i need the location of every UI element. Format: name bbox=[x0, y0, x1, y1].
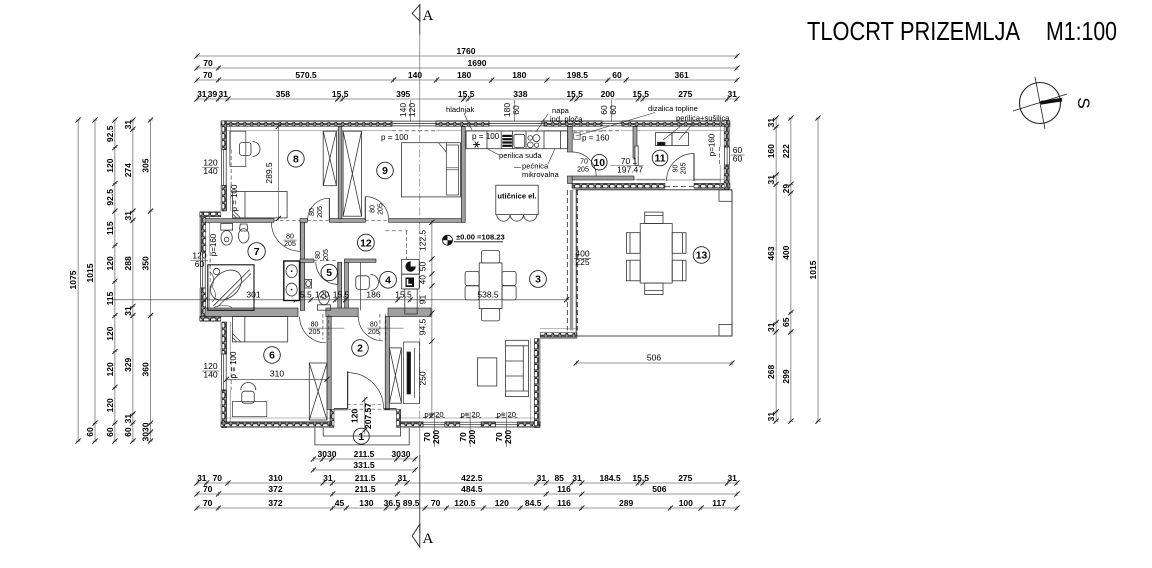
section line A-A bbox=[419, 5, 421, 534]
dim top row1 total 1760 bbox=[194, 46, 739, 59]
svg-text:310: 310 bbox=[270, 369, 284, 379]
svg-text:92.5: 92.5 bbox=[105, 189, 115, 206]
svg-text:utičnice el.: utičnice el. bbox=[497, 192, 536, 201]
svg-text:S: S bbox=[1074, 97, 1093, 108]
heat pump unit room 10 bbox=[574, 133, 580, 139]
interior wall bedrooms north east part bbox=[388, 308, 431, 317]
svg-text:3030: 3030 bbox=[392, 449, 411, 459]
svg-text:200: 200 bbox=[467, 430, 477, 444]
svg-text:275: 275 bbox=[678, 89, 692, 99]
exterior wall right segment 1 bbox=[720, 121, 730, 148]
svg-text:p=160: p=160 bbox=[708, 133, 717, 156]
exterior wall top segment 3 bbox=[544, 121, 602, 131]
room 10 lintel dash bbox=[573, 130, 602, 132]
svg-text:120: 120 bbox=[105, 326, 115, 340]
exterior wall left lower segment 1 bbox=[221, 322, 231, 354]
kitchen island bbox=[496, 185, 538, 214]
svg-text:538.5: 538.5 bbox=[477, 290, 499, 300]
svg-text:329: 329 bbox=[123, 357, 133, 371]
svg-text:70: 70 bbox=[203, 498, 213, 508]
svg-text:31: 31 bbox=[123, 120, 133, 130]
svg-text:140: 140 bbox=[408, 70, 422, 80]
window label 60/60 utility bbox=[731, 145, 745, 164]
door leaf rooms 10|11 bbox=[635, 146, 638, 166]
room 8 desk bbox=[230, 131, 246, 166]
svg-text:1015: 1015 bbox=[808, 260, 818, 279]
svg-text:31: 31 bbox=[537, 473, 547, 483]
terrace chairs bbox=[626, 212, 686, 294]
svg-text:100: 100 bbox=[679, 498, 693, 508]
tv wall unit bbox=[404, 342, 420, 404]
svg-text:299: 299 bbox=[781, 369, 791, 383]
svg-text:205: 205 bbox=[309, 329, 321, 336]
svg-text:275: 275 bbox=[678, 473, 692, 483]
svg-text:372: 372 bbox=[268, 484, 282, 494]
svg-text:94.5: 94.5 bbox=[418, 318, 428, 335]
svg-text:15.5: 15.5 bbox=[632, 473, 649, 483]
svg-text:570.5: 570.5 bbox=[295, 70, 317, 80]
dim bottom porch total 331.5 bbox=[311, 460, 418, 473]
svg-text:180: 180 bbox=[457, 70, 471, 80]
svg-text:89.5: 89.5 bbox=[403, 498, 420, 508]
svg-text:205: 205 bbox=[323, 249, 330, 261]
bathroom bump top stub bbox=[200, 211, 221, 217]
svg-text:15.5: 15.5 bbox=[632, 89, 649, 99]
svg-text:11: 11 bbox=[655, 154, 666, 165]
door wc 5 (80/205) bbox=[316, 262, 338, 284]
dim bottom row1 bbox=[194, 473, 739, 486]
svg-text:80: 80 bbox=[370, 205, 377, 213]
interior wall hall|bath west part bbox=[205, 219, 274, 223]
room 6 dim 310 bbox=[224, 369, 330, 382]
room 6 desk bbox=[232, 402, 266, 417]
door hinge posts dashed (rooms 6 and 2) bbox=[322, 314, 324, 340]
wc 5 toilet bbox=[318, 291, 331, 310]
exterior wall utility south 2 bbox=[694, 179, 730, 189]
exterior wall living step bbox=[540, 329, 577, 339]
door room 9 (80/205) bbox=[365, 197, 388, 220]
entrance porch steps bbox=[315, 428, 409, 445]
svg-text:13: 13 bbox=[696, 251, 708, 262]
room 9 double bed bbox=[401, 143, 460, 197]
svg-text:29: 29 bbox=[781, 184, 791, 194]
exterior wall right segment 2 bbox=[720, 165, 730, 189]
entrance door leaf + swing bbox=[348, 371, 384, 408]
svg-text:10: 10 bbox=[594, 158, 606, 169]
svg-text:80: 80 bbox=[315, 251, 322, 259]
door bathroom 7 (80/205) bbox=[271, 222, 300, 251]
room 8 chair bbox=[240, 142, 261, 157]
room 8 wardrobe bbox=[323, 131, 336, 186]
svg-text:31: 31 bbox=[323, 473, 333, 483]
svg-text:perilica suđa: perilica suđa bbox=[499, 151, 542, 160]
dim bottom row3 bbox=[194, 498, 739, 511]
room number 4 bbox=[380, 271, 397, 288]
svg-text:31: 31 bbox=[197, 473, 207, 483]
svg-text:120: 120 bbox=[105, 256, 115, 270]
svg-text:p≡ 20: p≡ 20 bbox=[497, 410, 516, 419]
svg-text:84.5: 84.5 bbox=[525, 498, 542, 508]
window room 6 left (120/140) bbox=[221, 354, 231, 390]
bathroom bump wall lower bbox=[200, 288, 210, 318]
room number 2 bbox=[352, 340, 369, 357]
svg-text:7: 7 bbox=[254, 247, 260, 258]
svg-text:15.5: 15.5 bbox=[333, 290, 350, 300]
svg-text:1690: 1690 bbox=[468, 58, 487, 68]
window room 8 left (120/140) bbox=[221, 150, 231, 186]
svg-text:205: 205 bbox=[317, 206, 324, 218]
svg-text:211.5: 211.5 bbox=[355, 484, 376, 494]
svg-text:p≡ 20: p≡ 20 bbox=[424, 410, 443, 419]
svg-text:p = 100: p = 100 bbox=[472, 132, 500, 141]
svg-text:31: 31 bbox=[766, 175, 776, 185]
svg-text:116: 116 bbox=[557, 484, 571, 494]
room 2 wardrobe east bbox=[389, 348, 401, 403]
svg-text:289.5: 289.5 bbox=[264, 162, 274, 184]
svg-text:372: 372 bbox=[268, 498, 282, 508]
svg-text:120.5: 120.5 bbox=[454, 498, 476, 508]
room 7 bidet bbox=[238, 224, 249, 243]
svg-text:TLOCRT PRIZEMLJA: TLOCRT PRIZEMLJA bbox=[807, 16, 1021, 46]
svg-text:207.57: 207.57 bbox=[363, 403, 373, 429]
glazed sliding wall to terrace bbox=[567, 190, 577, 331]
window living room 1 (70/200) bbox=[423, 417, 445, 427]
svg-text:463: 463 bbox=[766, 246, 776, 260]
exterior wall left lower segment 2 bbox=[221, 390, 231, 428]
dim left colE bbox=[141, 117, 154, 443]
window label 120/140 room 6 bbox=[202, 361, 219, 380]
svg-text:358: 358 bbox=[276, 89, 290, 99]
bathroom bump wall upper bbox=[200, 216, 210, 253]
svg-text:205: 205 bbox=[378, 203, 385, 215]
terrace 506 dim bbox=[574, 353, 735, 366]
svg-text:31: 31 bbox=[727, 89, 737, 99]
interior wall hall east part bbox=[389, 219, 466, 223]
svg-text:122.5: 122.5 bbox=[418, 230, 428, 252]
svg-text:5: 5 bbox=[326, 268, 332, 279]
svg-text:15.5: 15.5 bbox=[332, 89, 349, 99]
room number 13 bbox=[693, 247, 710, 264]
svg-text:31: 31 bbox=[766, 118, 776, 128]
interior wall room 4 west bbox=[345, 262, 349, 310]
room 4 chair bbox=[356, 275, 379, 291]
svg-text:±0.00 =108.23: ±0.00 =108.23 bbox=[456, 233, 505, 242]
wc 5 small sink bbox=[305, 279, 312, 288]
svg-text:9: 9 bbox=[382, 166, 388, 177]
svg-text:268: 268 bbox=[766, 365, 776, 379]
window label 120/140 room 8 bbox=[202, 157, 219, 176]
svg-text:198.5: 198.5 bbox=[567, 70, 589, 80]
door room 2 (80/205) bbox=[358, 317, 382, 341]
bathroom bump bottom stub bbox=[200, 316, 221, 322]
glazed wall dim 400/225 bbox=[574, 248, 591, 267]
svg-text:186: 186 bbox=[366, 290, 380, 300]
entrance door recess bbox=[330, 405, 401, 428]
svg-text:31: 31 bbox=[123, 414, 133, 424]
svg-text:422.5: 422.5 bbox=[461, 473, 483, 483]
room number 5 bbox=[321, 264, 337, 280]
dining chairs bbox=[465, 251, 516, 321]
exterior wall utility south 1 bbox=[572, 179, 665, 189]
svg-text:115: 115 bbox=[105, 221, 115, 235]
svg-text:31: 31 bbox=[123, 306, 133, 316]
svg-text:289: 289 bbox=[619, 498, 633, 508]
window hallway 10/11 (60) bbox=[602, 121, 622, 131]
interior wall kitchen|room10 lower stub bbox=[568, 176, 573, 184]
horizontal dim line through bathrooms y300 bbox=[113, 290, 569, 303]
interior wall room 9 east bbox=[461, 127, 465, 223]
svg-text:31: 31 bbox=[197, 89, 207, 99]
svg-text:130: 130 bbox=[359, 498, 373, 508]
section marker A top bbox=[412, 5, 433, 25]
svg-text:350: 350 bbox=[141, 256, 151, 270]
room number 1 bbox=[353, 428, 369, 444]
room number 7 bbox=[248, 243, 265, 260]
interior wall room4 north bbox=[345, 259, 377, 262]
interior wall wc 5 east bbox=[338, 262, 342, 310]
dim left colA 1075 bbox=[68, 117, 81, 443]
svg-text:400: 400 bbox=[781, 245, 791, 259]
corner bathtub bbox=[208, 265, 254, 311]
svg-text:331.5: 331.5 bbox=[353, 460, 375, 470]
svg-text:45: 45 bbox=[335, 498, 345, 508]
svg-text:p = 160: p = 160 bbox=[582, 134, 610, 143]
svg-text:15.5: 15.5 bbox=[458, 89, 475, 99]
svg-text:92.5: 92.5 bbox=[105, 125, 115, 142]
hall dashed boundary bbox=[406, 231, 408, 260]
svg-text:361: 361 bbox=[675, 70, 689, 80]
svg-text:360: 360 bbox=[141, 362, 151, 376]
door room 11 to terrace (90/205) bbox=[667, 154, 695, 182]
dim top row4 bbox=[194, 89, 739, 102]
interior wall bath 7|wc 5 bbox=[300, 222, 304, 310]
svg-text:200: 200 bbox=[601, 89, 615, 99]
svg-text:1760: 1760 bbox=[457, 46, 476, 56]
terrace corner post SE bbox=[719, 325, 732, 337]
svg-text:506: 506 bbox=[652, 484, 666, 494]
window living room 3 (70/200) bbox=[495, 417, 517, 427]
door room 6 (80/205) bbox=[300, 317, 326, 343]
exterior wall top segment 1 bbox=[221, 121, 392, 131]
svg-text:3: 3 bbox=[535, 275, 541, 286]
svg-text:90: 90 bbox=[673, 165, 680, 173]
svg-text:31: 31 bbox=[123, 211, 133, 221]
svg-text:200: 200 bbox=[503, 430, 513, 444]
dim right col2 bbox=[781, 115, 794, 423]
svg-text:8: 8 bbox=[293, 155, 299, 166]
window kitchen (180) bbox=[489, 121, 544, 131]
dim left colD bbox=[123, 117, 136, 443]
door opening utility-terrace (dashed) bbox=[665, 185, 694, 187]
exterior wall bottom segment 3 bbox=[445, 422, 460, 428]
interior wall kitchen|room10 upper bbox=[568, 127, 573, 153]
exterior wall living east bbox=[530, 339, 540, 428]
dim top row2 bbox=[194, 58, 739, 71]
svg-text:p = 100: p = 100 bbox=[230, 184, 239, 211]
svg-text:288: 288 bbox=[123, 256, 133, 270]
svg-text:120: 120 bbox=[105, 362, 115, 376]
svg-text:60: 60 bbox=[105, 427, 115, 437]
svg-text:80: 80 bbox=[311, 322, 319, 329]
svg-text:115: 115 bbox=[105, 291, 115, 305]
svg-text:A: A bbox=[423, 8, 434, 24]
svg-text:70: 70 bbox=[203, 70, 213, 80]
svg-text:70: 70 bbox=[580, 159, 588, 166]
svg-text:15.5: 15.5 bbox=[566, 89, 583, 99]
door opening dashes bbox=[274, 219, 300, 221]
washer+dryer room 11 bbox=[656, 133, 689, 146]
svg-text:31: 31 bbox=[398, 473, 408, 483]
interior wall wc5 north stub bbox=[300, 259, 314, 262]
svg-text:1: 1 bbox=[358, 432, 364, 443]
svg-text:6: 6 bbox=[269, 351, 275, 362]
cooktop circles bbox=[527, 135, 540, 148]
svg-text:70: 70 bbox=[213, 473, 223, 483]
dim right col3 1015 bbox=[808, 115, 821, 423]
svg-text:180: 180 bbox=[512, 70, 526, 80]
dim right col1 bbox=[766, 115, 779, 423]
svg-text:197.47: 197.47 bbox=[617, 165, 643, 175]
window living room 2 (70/200) bbox=[460, 417, 481, 427]
interior wall bedrooms north west part bbox=[205, 308, 298, 317]
room 9 wardrobe bbox=[343, 131, 362, 216]
svg-text:160: 160 bbox=[766, 144, 776, 158]
svg-text:p = 100: p = 100 bbox=[381, 133, 409, 142]
svg-text:80: 80 bbox=[370, 322, 378, 329]
room 4 counter line bbox=[360, 262, 362, 310]
interior wall rooms 6|2 bbox=[327, 317, 331, 410]
exterior wall top segment 2 bbox=[436, 121, 489, 131]
svg-text:31: 31 bbox=[218, 89, 228, 99]
svg-text:ind. ploča: ind. ploča bbox=[550, 115, 583, 124]
svg-text:205: 205 bbox=[577, 167, 589, 174]
section marker A bottom bbox=[412, 524, 433, 547]
window label 120/60 bath bbox=[191, 250, 208, 269]
exterior wall left upper segment 2 bbox=[221, 186, 231, 212]
svg-text:211.5: 211.5 bbox=[355, 473, 376, 483]
svg-text:80: 80 bbox=[309, 208, 316, 216]
dim left colC bbox=[105, 117, 118, 443]
svg-text:3030: 3030 bbox=[318, 449, 337, 459]
svg-text:205: 205 bbox=[681, 163, 688, 175]
room 4 washer tower bbox=[402, 259, 420, 314]
svg-text:80: 80 bbox=[286, 234, 294, 241]
room number 3 bbox=[530, 271, 547, 288]
washer icons bbox=[405, 261, 415, 287]
svg-text:120: 120 bbox=[495, 498, 509, 508]
svg-text:205: 205 bbox=[284, 241, 296, 248]
interior wall rooms 10|11 bbox=[633, 127, 637, 159]
svg-text:211.5: 211.5 bbox=[354, 449, 375, 459]
room 10 south wall thin bbox=[572, 176, 634, 180]
svg-text:M1:100: M1:100 bbox=[1046, 16, 1117, 46]
svg-text:31: 31 bbox=[572, 473, 582, 483]
svg-text:120: 120 bbox=[350, 409, 360, 423]
svg-text:p=160: p=160 bbox=[209, 233, 218, 256]
interior wall stub between doors 7-8 bbox=[300, 219, 307, 223]
svg-text:484.5: 484.5 bbox=[461, 484, 483, 494]
svg-text:p ≡ 100: p ≡ 100 bbox=[229, 351, 238, 378]
svg-text:31: 31 bbox=[727, 473, 737, 483]
svg-text:310: 310 bbox=[268, 473, 282, 483]
door room 8 (80/205) bbox=[308, 198, 330, 220]
room number 10 bbox=[592, 154, 608, 170]
svg-text:65: 65 bbox=[781, 317, 791, 327]
svg-text:506: 506 bbox=[647, 353, 661, 363]
svg-text:70: 70 bbox=[431, 498, 441, 508]
svg-text:hladnjak: hladnjak bbox=[446, 105, 474, 114]
svg-text:39: 39 bbox=[208, 89, 218, 99]
svg-text:3030: 3030 bbox=[141, 422, 151, 441]
svg-text:116: 116 bbox=[557, 498, 571, 508]
exterior wall bottom segment 5 bbox=[517, 422, 540, 428]
svg-text:60: 60 bbox=[612, 70, 622, 80]
dim top row3 bbox=[194, 70, 739, 83]
interior wall stub between doors 8-9 bbox=[329, 219, 365, 223]
coffee table bbox=[477, 358, 496, 386]
svg-text:305: 305 bbox=[141, 158, 151, 172]
svg-text:274: 274 bbox=[123, 163, 133, 177]
terrace table bbox=[640, 224, 672, 284]
room number 6 bbox=[264, 347, 281, 364]
vanity double sink bbox=[284, 261, 300, 301]
room number 8 bbox=[288, 151, 305, 168]
exterior wall bottom segment 2 bbox=[401, 422, 423, 428]
window utility right (60/60) bbox=[720, 147, 730, 165]
svg-text:60: 60 bbox=[123, 427, 133, 437]
exterior wall bottom segment 1 bbox=[221, 422, 330, 428]
induction hob black bars bbox=[502, 135, 512, 147]
door room 10 from kitchen (70/205) bbox=[572, 152, 596, 176]
exterior wall top segment 4 bbox=[622, 121, 730, 131]
room 8 dim 289.5 bbox=[264, 124, 281, 221]
svg-text:60: 60 bbox=[511, 105, 521, 115]
terrace outline bbox=[576, 190, 732, 336]
vertical dim line x432 bbox=[418, 220, 435, 419]
room number 11 bbox=[652, 150, 668, 166]
svg-text:4: 4 bbox=[385, 276, 391, 287]
door 10|11 dim 70/197.47 bbox=[610, 156, 644, 175]
svg-text:36.5: 36.5 bbox=[384, 498, 401, 508]
svg-text:31: 31 bbox=[766, 412, 776, 422]
svg-text:31: 31 bbox=[766, 322, 776, 332]
interior wall rooms 8|9 bbox=[338, 127, 342, 223]
svg-text:120: 120 bbox=[105, 158, 115, 172]
svg-text:15.5: 15.5 bbox=[395, 290, 412, 300]
room number 9 bbox=[377, 162, 394, 179]
svg-text:12: 12 bbox=[360, 238, 372, 249]
island stools bbox=[497, 215, 537, 222]
svg-text:2: 2 bbox=[357, 344, 363, 355]
room number 12 bbox=[358, 234, 375, 251]
porch dim 120/207.57 bbox=[350, 397, 374, 434]
svg-text:117: 117 bbox=[712, 498, 726, 508]
svg-text:perilica+sušilica: perilica+sušilica bbox=[676, 114, 730, 123]
kitchen sink bbox=[514, 134, 525, 147]
svg-text:200: 200 bbox=[431, 430, 441, 444]
svg-text:70: 70 bbox=[203, 58, 213, 68]
svg-text:1075: 1075 bbox=[68, 270, 78, 289]
exterior wall left upper segment 1 bbox=[221, 121, 231, 150]
room 6 bed bbox=[232, 317, 287, 342]
svg-text:A: A bbox=[423, 531, 434, 547]
room 10/11 floor line bbox=[637, 179, 721, 181]
room 7 toilet bbox=[221, 224, 233, 246]
svg-text:dizalica topline: dizalica topline bbox=[648, 104, 698, 113]
svg-text:120: 120 bbox=[407, 103, 417, 117]
window bathroom (120/60) bbox=[200, 252, 210, 288]
elevation marker ±0.00=108.23 bbox=[443, 233, 505, 246]
